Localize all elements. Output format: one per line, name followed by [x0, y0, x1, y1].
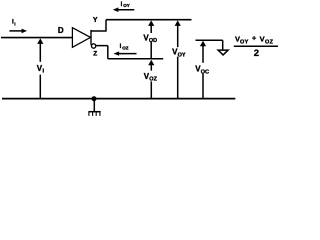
wire ground rail	[2, 98, 235, 100]
formula VOC equation numerator	[235, 34, 274, 46]
terminal open triangle VOC	[218, 50, 228, 55]
wire input D	[1, 37, 73, 39]
svg-text:Y: Y	[93, 17, 98, 24]
svg-text:OZ: OZ	[265, 39, 274, 45]
wire Y rail top	[106, 19, 192, 21]
op-amp driver U1 triangle	[72, 28, 90, 48]
measure VOZ arrow	[148, 60, 154, 99]
label IOY	[121, 2, 130, 8]
svg-text:D: D	[58, 26, 64, 35]
svg-text:2: 2	[254, 48, 259, 59]
arrow IOZ	[114, 51, 137, 55]
label VOD	[143, 33, 157, 44]
svg-text:OY: OY	[178, 52, 186, 58]
label IOZ	[120, 44, 129, 51]
arrow II	[9, 29, 27, 34]
driver apex bar	[90, 30, 92, 45]
wire VOC top bar	[196, 40, 223, 50]
svg-text:OZ: OZ	[149, 76, 157, 82]
svg-text:OY: OY	[240, 39, 249, 45]
label VI	[37, 64, 45, 75]
label II input current	[12, 18, 16, 26]
arrow IOY	[113, 7, 135, 12]
node bubble Z inversion	[91, 44, 95, 48]
label VOC	[195, 65, 209, 76]
wire Z branch	[96, 46, 163, 59]
measure VOC arrow	[200, 41, 206, 99]
svg-text:V: V	[260, 34, 265, 43]
svg-text:I: I	[14, 21, 15, 26]
measure VOD arrow	[148, 20, 154, 58]
formula fraction bar	[234, 45, 278, 47]
svg-text:OD: OD	[149, 38, 157, 44]
wire Y branch	[91, 20, 106, 32]
svg-text:+: +	[252, 34, 257, 43]
label VOZ	[144, 72, 158, 82]
measure VOY arrow	[175, 20, 181, 98]
node junction dot	[92, 96, 97, 101]
svg-text:OZ: OZ	[122, 45, 129, 50]
measure VI arrow	[37, 38, 43, 98]
svg-text:OY: OY	[123, 3, 130, 8]
label VOY	[172, 48, 186, 59]
svg-text:I: I	[43, 69, 45, 75]
svg-text:Z: Z	[93, 50, 97, 57]
svg-text:I: I	[120, 44, 122, 50]
svg-text:OC: OC	[201, 69, 209, 75]
ground	[88, 99, 100, 116]
